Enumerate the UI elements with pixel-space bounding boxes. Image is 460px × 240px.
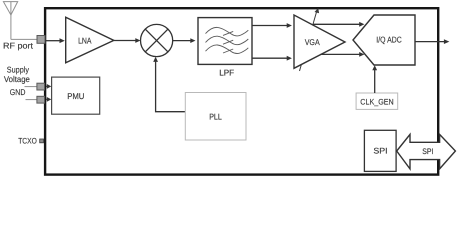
wire antenna to RF port [11,38,37,40]
wire RF port to LNA [46,40,60,42]
svg-text:SPI: SPI [373,147,387,156]
amplifier LNA [66,17,114,63]
amplifier VGA [294,15,345,68]
svg-text:VGA: VGA [305,37,320,47]
GND pad [37,96,45,103]
wire ADC output [415,41,444,43]
PMU [52,77,100,114]
svg-text:Voltage: Voltage [4,74,30,84]
SPI block [364,130,396,171]
svg-text:GND: GND [10,87,26,97]
svg-text:PLL: PLL [209,112,222,122]
wire GND to PMU [46,98,47,100]
PLL [185,93,246,141]
filter LPF [198,18,252,65]
wire LPF to VGA (I) [252,25,287,27]
wire LNA to mixer [114,40,136,42]
svg-text:RF port: RF port [3,40,34,50]
LPF wave symbol [206,27,249,53]
wire mixer to LPF [173,40,191,42]
svg-text:LNA: LNA [78,35,92,45]
clock generator CLK_GEN [356,93,398,109]
SPI bus double arrow [397,134,456,169]
RF port pad [37,36,45,44]
svg-text:TCXO: TCXO [18,136,37,145]
svg-text:CLK_GEN: CLK_GEN [360,97,394,106]
LO wire PLL to mixer [156,62,186,112]
svg-text:I/Q ADC: I/Q ADC [376,35,401,45]
svg-text:LPF: LPF [219,67,234,77]
mixer [141,24,173,56]
wire supply to PMU [46,85,47,87]
wire VGA to ADC (Q) [321,53,360,55]
svg-text:SPI: SPI [422,147,433,156]
supply pad [37,83,45,90]
VGA gain arrow [300,11,317,71]
ADC I/Q converter [353,15,415,65]
wire VGA to ADC (I) [313,23,360,25]
GND lead [26,99,38,101]
TCXO pad [40,139,44,143]
wire CLK_GEN to ADC [374,70,376,93]
wire LPF to VGA (Q) [252,57,287,59]
chip boundary [45,8,438,174]
antenna [3,2,17,40]
supply lead [25,86,38,88]
svg-text:PMU: PMU [67,91,84,101]
